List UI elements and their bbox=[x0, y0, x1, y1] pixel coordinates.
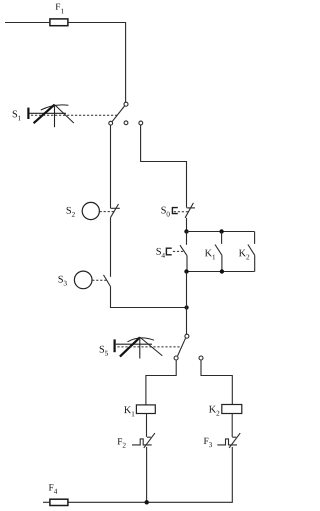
pushbutton S4 (NO start) bbox=[157, 232, 188, 272]
wire F2 to bottom rail bbox=[146, 447, 148, 502]
S4 top wire bbox=[186, 232, 188, 245]
wire S3 down and right to main rail bbox=[111, 287, 187, 308]
S0 tick bbox=[187, 207, 195, 209]
pushbutton S0 (NC stop) bbox=[161, 203, 195, 218]
junction node A bbox=[185, 305, 189, 309]
S5 arc bbox=[128, 338, 155, 342]
junction bbox=[220, 269, 224, 273]
fuse F4 bbox=[49, 484, 68, 505]
S5 right terminal bbox=[199, 356, 203, 360]
wire bottom left stub bbox=[43, 501, 50, 503]
S1 arc bbox=[41, 105, 69, 110]
F3 blade bbox=[229, 433, 240, 448]
wire main rail down bbox=[186, 272, 188, 335]
junction bbox=[184, 269, 188, 273]
switch S5 (manual selector, changeover) bbox=[100, 334, 203, 360]
S4 blade bbox=[180, 245, 187, 255]
wire bottom contact rail bbox=[187, 271, 255, 273]
wire right branch S1 to S0 bbox=[141, 125, 187, 208]
S5 lever (thick) bbox=[120, 337, 140, 356]
K2 blade bbox=[248, 245, 255, 256]
switch S1 (manual selector, changeover) bbox=[13, 102, 143, 127]
S1 right terminal bbox=[139, 121, 143, 125]
S2 actuator head bbox=[82, 202, 99, 219]
S1 lever (thick) bbox=[34, 105, 55, 124]
contact K1 (NO auxiliary) bbox=[205, 232, 222, 272]
S1 contact blade bbox=[112, 106, 125, 122]
pushbutton S2 (NC contact) bbox=[67, 202, 120, 219]
wire F3 down to bottom rail corner bbox=[68, 447, 232, 502]
F2 tick bbox=[147, 436, 151, 438]
fuse F1 bbox=[50, 4, 68, 26]
S5 left terminal bbox=[174, 356, 178, 360]
S0 manual actuator E bbox=[172, 208, 177, 214]
S1 actuator rod bbox=[30, 112, 67, 114]
S5 common terminal bbox=[185, 334, 189, 338]
S3 blade bbox=[104, 275, 111, 287]
S5 actuator T-bar bbox=[113, 339, 115, 352]
junction bbox=[219, 229, 223, 233]
S4 link dashed bbox=[173, 250, 185, 252]
S1 shaft vertical bbox=[54, 105, 56, 128]
S5 shaft vertical bbox=[139, 337, 141, 358]
S1 cross diagonal bbox=[55, 105, 74, 123]
S5 cross diagonal bbox=[140, 337, 162, 356]
S0 blade bbox=[185, 203, 193, 218]
wire S2 to S3 bbox=[110, 218, 112, 277]
wire K1 coil to F2 bbox=[146, 414, 148, 437]
F2 blade bbox=[144, 433, 155, 448]
pushbutton S3 (NO contact) bbox=[59, 271, 111, 289]
S3 actuator head bbox=[74, 271, 92, 289]
wire S0 to junction bbox=[186, 218, 188, 232]
S4 manual actuator E bbox=[166, 248, 171, 255]
F2 thermal release bbox=[132, 439, 152, 445]
junction on bottom rail bbox=[145, 500, 149, 504]
thermal overload contact F3 (NC) bbox=[204, 433, 240, 448]
S1 middle terminal bbox=[124, 121, 128, 125]
S2 link dashed bbox=[100, 211, 114, 213]
S2 tick bbox=[111, 207, 120, 209]
S1 mechanical link (dashed) bbox=[31, 114, 117, 116]
S4 bottom wire bbox=[186, 256, 188, 272]
contact K2 (NO auxiliary) bbox=[239, 232, 255, 272]
wire K2 coil to F3 bbox=[231, 414, 233, 437]
wire L1 top left bbox=[5, 22, 50, 24]
relay coil K2 bbox=[209, 405, 242, 416]
S0 link dashed bbox=[174, 211, 189, 213]
wire left branch S1 to S2 bbox=[110, 125, 112, 208]
relay coil K1 bbox=[124, 405, 155, 416]
wire S5 left to K1 coil bbox=[146, 360, 176, 405]
K1 blade bbox=[215, 245, 222, 256]
wire S5 right to K2 coil bbox=[201, 360, 232, 405]
S1 left terminal bbox=[109, 121, 113, 125]
S3 link dashed bbox=[92, 279, 107, 281]
F3 tick bbox=[232, 436, 236, 438]
junction bbox=[184, 229, 188, 233]
S1 common terminal bbox=[124, 102, 128, 106]
F3 thermal release bbox=[217, 439, 237, 445]
wire top right to S1 bbox=[68, 23, 126, 103]
S5 actuator rod bbox=[116, 343, 152, 345]
S5 blade bbox=[178, 338, 186, 356]
S2 blade bbox=[110, 204, 118, 218]
thermal overload contact F2 (NC) bbox=[118, 433, 155, 448]
S1 actuator T-bar bbox=[27, 108, 29, 119]
wire top contact rail bbox=[187, 231, 255, 233]
S5 link dashed bbox=[117, 346, 181, 348]
